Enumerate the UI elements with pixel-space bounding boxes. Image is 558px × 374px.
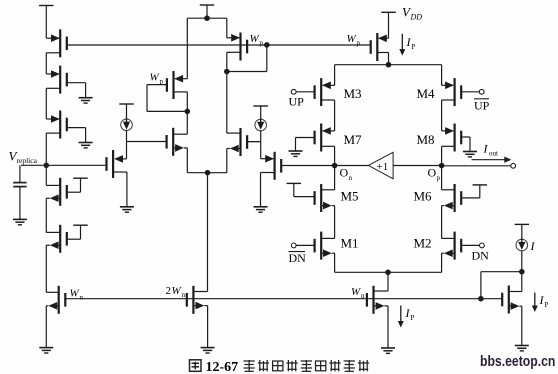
op-amp +1 unity buffer	[368, 152, 393, 179]
node Wp top gate-drain	[264, 42, 270, 48]
ground for Wn bottom source	[381, 347, 395, 349]
transistor T1 (PMOS, gate to Wp bias line)	[46, 29, 67, 74]
ground for 2Wn source	[201, 347, 215, 349]
transistor Wn bottom (NMOS tail current)	[367, 286, 388, 348]
caption title 高性能电荷泵的电路图	[244, 360, 255, 371]
transistor M5 (NMOS cascode)	[294, 166, 335, 239]
supply T-bar above current source I	[515, 223, 530, 225]
wire Wp gate line (T1 gate to right Wp gate)	[67, 44, 371, 46]
supply T-bar for M5 gate	[287, 182, 302, 184]
current arrow Ip right	[534, 293, 536, 310]
wire Wn bias line (bottom rail)	[65, 298, 481, 300]
wire On to buffer	[335, 165, 369, 167]
node top rail	[386, 62, 392, 68]
wire gate line to pair-right NMOS	[247, 141, 261, 143]
transistor Wp diode top	[227, 33, 247, 72]
transistor M7 (PMOS cascode)	[296, 124, 335, 166]
wire bias line to diode gate	[481, 298, 502, 300]
transistor pair-left NMOS	[167, 111, 208, 172]
node V_replica junction	[44, 163, 50, 169]
wire Op output line	[442, 165, 511, 167]
ground for T3 gate	[79, 142, 93, 144]
terminal UP input	[291, 89, 296, 94]
transistor M4 (PMOS switch, UPbar)	[442, 65, 480, 131]
node bias gate junction	[478, 296, 484, 302]
transistor source-follower left (PMOS, V_replica input)	[107, 150, 127, 207]
power VDD T-bar right (V_DD)	[381, 11, 396, 13]
wire On line to follower gate	[281, 165, 334, 167]
wire current source I down	[521, 251, 523, 272]
node tail of core	[385, 270, 391, 276]
terminal output	[511, 163, 516, 168]
current source left	[121, 119, 133, 131]
node Wp diode left drain	[185, 109, 191, 115]
transistor bias diode (NMOS, sets Wn line)	[502, 272, 522, 346]
watermark bbs.eetop.cn	[480, 354, 555, 369]
terminal DN input	[480, 243, 485, 248]
capacitor C_replica	[13, 165, 26, 219]
transistor M3 (PMOS switch, UP)	[296, 65, 335, 131]
transistor M8 (PMOS cascode)	[442, 124, 470, 166]
wire current source to follower	[126, 130, 128, 159]
supply T-bar above right current source	[253, 105, 268, 107]
transistor 2Wn (NMOS tail mirror)	[187, 286, 208, 348]
terminal DNbar input	[291, 243, 296, 248]
node VDD mid	[204, 15, 210, 21]
transistor Wn left (NMOS bias mirror)	[46, 286, 65, 348]
transistor Wp diode left	[147, 71, 187, 111]
transistor T4 (NMOS, gate tied high)	[46, 165, 80, 232]
ground for M8 gate	[463, 151, 477, 153]
wire current source to follower right	[260, 131, 262, 159]
transistor T5 (NMOS, gate tied high)	[46, 225, 80, 292]
wire V_replica net	[21, 164, 105, 166]
ground for bias diode source	[515, 345, 529, 347]
ground for follower-left drain	[120, 206, 134, 208]
wire gate line to pair-left NMOS	[127, 141, 168, 143]
current arrow Ip bottom	[400, 306, 402, 325]
power VDD T-bar top-left	[39, 5, 54, 7]
wire top rail of core	[335, 64, 442, 66]
wire VDD distribution	[187, 17, 227, 19]
transistor Wp right (PMOS current setting)	[371, 33, 389, 65]
transistor source-follower right (PMOS, On input)	[261, 152, 282, 207]
transistor T2 (PMOS, gate grounded)	[46, 66, 85, 119]
ground for capacitor	[13, 218, 27, 220]
wire buffer to Op	[393, 165, 442, 167]
transistor M2 (NMOS switch, DN)	[388, 232, 480, 273]
svg-text:12-67: 12-67	[206, 360, 239, 374]
wire Wp top diode connection	[266, 45, 268, 72]
node Op	[439, 163, 445, 169]
current arrow Ip top	[401, 34, 403, 53]
current source right-mid	[255, 119, 267, 131]
wire tail down to 2Wn	[207, 173, 209, 292]
supply T-bar above left current source	[119, 103, 134, 105]
current arrow Iout	[472, 159, 506, 161]
supply T-bar for T4 gate	[73, 177, 88, 179]
node On	[332, 163, 338, 169]
node bias drain	[519, 269, 525, 275]
ground for Wn left source	[39, 347, 53, 349]
terminal UPbar input	[479, 89, 484, 94]
node Wp top drain	[224, 69, 230, 75]
power VDD T-bar top-middle	[200, 4, 215, 6]
transistor pair-right NMOS	[208, 72, 261, 173]
current source I	[516, 239, 528, 251]
supply T-bar for T5 gate	[73, 224, 88, 226]
ground for T2 gate	[79, 97, 93, 99]
transistor M6 (NMOS cascode)	[442, 166, 480, 239]
transistor M1 (NMOS switch, DNbar)	[296, 232, 388, 273]
wire bias diode connection	[481, 271, 522, 273]
node tail junction	[205, 170, 211, 176]
supply T-bar for M6 gate	[473, 184, 488, 186]
ground for follower-right drain	[254, 206, 268, 208]
transistor T3 (PMOS, gate grounded)	[46, 111, 85, 166]
ground for M7 gate	[289, 150, 303, 152]
wire core tail down	[387, 272, 389, 291]
